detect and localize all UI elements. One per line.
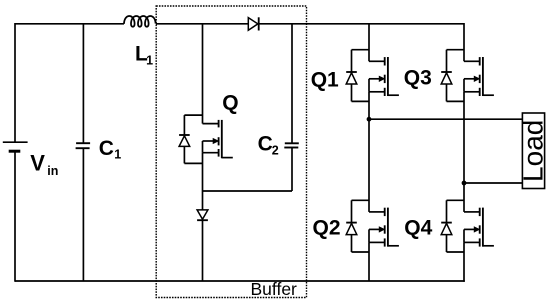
wire C2 branch bottom (291, 148, 293, 192)
svg-text:in: in (47, 164, 58, 178)
wire left rail (bottom) (14, 151, 16, 282)
wire Q3 source to node B (463, 92, 465, 183)
wire C2 branch top (291, 24, 293, 144)
capacitor C2 (284, 143, 299, 147)
load box (522, 113, 544, 189)
svg-text:Q: Q (222, 92, 238, 115)
svg-text:1: 1 (114, 147, 121, 161)
wire Q1 source to node A (368, 92, 370, 119)
wire Q4 source to bottom rail corner (463, 242, 465, 281)
svg-text:C: C (99, 137, 114, 160)
wire top rail: inductor to diode D1 (156, 23, 248, 25)
transistor Q3 (464, 57, 494, 96)
wire node B down to Q4 (463, 183, 465, 212)
wire Q drain branch (202, 24, 204, 124)
transistor Q (203, 120, 233, 158)
body diode of Q1 (346, 50, 369, 102)
body diode of Q (179, 115, 202, 163)
wire Q source down (202, 153, 204, 210)
diode D2 (pointing down) (197, 210, 208, 220)
wire node A to load (upper) (369, 118, 522, 120)
transistor Q1 (369, 57, 399, 96)
wire C1 branch bottom (82, 148, 84, 281)
wire node A down to Q2 (368, 119, 370, 212)
wire C2 return horizontal (203, 190, 293, 192)
node B junction dot (462, 181, 467, 186)
svg-text:Q2: Q2 (313, 216, 341, 239)
dashed box Buffer (156, 6, 306, 298)
wire Q2 source to bottom rail (368, 242, 370, 281)
body diode of Q3 (441, 50, 464, 102)
body diode of Q4 (441, 200, 464, 252)
svg-text:Q1: Q1 (311, 69, 339, 92)
wire top rail left segment (15, 23, 124, 25)
svg-text:Q4: Q4 (404, 216, 432, 239)
svg-text:Q3: Q3 (404, 67, 432, 90)
svg-text:2: 2 (272, 144, 279, 158)
node A junction dot (367, 117, 372, 122)
wire bottom rail (15, 280, 465, 282)
svg-text:Buffer: Buffer (251, 279, 298, 299)
wire top rail: D1 to right corner (259, 23, 464, 25)
wire C1 branch top (82, 24, 84, 143)
diode D1 (248, 17, 258, 30)
inductor L1 (124, 16, 156, 27)
wire left rail (top) (14, 23, 16, 142)
wire Q3 drain from top rail corner (463, 23, 465, 61)
wire node B to load (lower) (464, 182, 522, 184)
capacitor C1 (76, 143, 91, 148)
svg-text:Load: Load (518, 120, 549, 182)
body diode of Q2 (346, 200, 369, 252)
wire D2 to bottom rail (202, 220, 204, 281)
transistor Q2 (369, 208, 399, 247)
svg-text:V: V (30, 151, 45, 176)
wire Q1 drain from top rail (368, 24, 370, 62)
svg-text:C: C (258, 132, 273, 155)
transistor Q4 (464, 208, 494, 247)
svg-text:1: 1 (146, 53, 153, 67)
battery Vin (3, 142, 28, 151)
